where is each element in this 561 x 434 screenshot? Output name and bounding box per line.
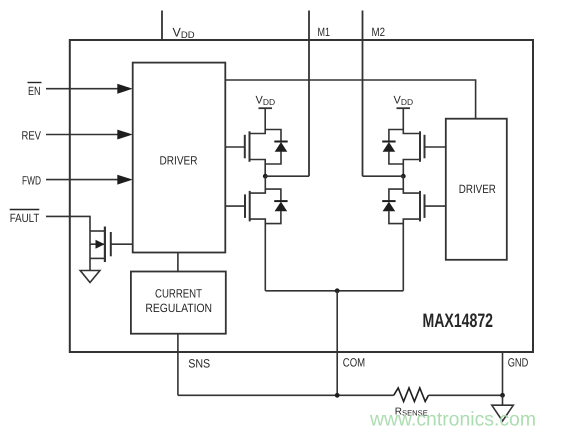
wire FAULT to open-drain transistor [46, 216, 90, 231]
node M1 bridge midpoint (junction dot) [263, 174, 268, 179]
svg-text:EN: EN [28, 84, 41, 98]
svg-text:COM: COM [343, 356, 365, 370]
wire bridge midpoint to M2 pin [363, 175, 404, 177]
wire DRIVER(left) to CURRENT REGULATION [177, 253, 179, 272]
transistor Q3 high-side right (NMOS, mirrored) [403, 108, 446, 176]
transistor Q1 high-side left (NMOS) [225, 108, 265, 176]
node GND external (junction dot) [500, 393, 505, 398]
node COM rail (junction dot) [335, 288, 340, 293]
wire SNS to RSENSE [178, 394, 394, 396]
pin VDD (top) [161, 11, 163, 41]
wire bridge midpoint to M1 pin [265, 175, 309, 177]
IC boundary MAX14872 [70, 40, 533, 352]
svg-text:VDD: VDD [394, 95, 414, 108]
svg-text:M1: M1 [318, 25, 331, 39]
svg-text:SNS: SNS [188, 357, 210, 371]
pin M2 (top) [362, 11, 364, 177]
diode body of Q1 [265, 130, 288, 165]
transistor Q5 fault open-drain (NMOS with body arrow) [90, 227, 133, 271]
block DRIVER (left) [133, 63, 226, 253]
wire EN input with arrowhead [46, 84, 133, 94]
ground (GND pin) [492, 395, 514, 421]
power VDD (left bridge) [256, 95, 276, 109]
svg-text:REV: REV [22, 129, 42, 143]
svg-text:M2: M2 [372, 25, 386, 39]
resistor RSENSE [394, 388, 429, 402]
pin M1 (top) [308, 11, 310, 177]
svg-text:VDD: VDD [256, 95, 276, 108]
wire RSENSE to GND [429, 394, 503, 396]
label EN input (active-low, overline) [28, 83, 42, 99]
diode body of Q2 [265, 189, 287, 224]
node COM external (junction dot) [335, 393, 340, 398]
svg-text:www.cntronics.com: www.cntronics.com [369, 408, 536, 430]
ground (fault transistor source) [80, 271, 100, 283]
label FAULT output (active-low, overline) [10, 210, 40, 226]
node M2 bridge midpoint (junction dot) [401, 174, 406, 179]
block CURRENT REGULATION [131, 272, 226, 334]
diode body of Q4 [382, 189, 403, 224]
svg-text:CURRENT: CURRENT [155, 287, 203, 301]
svg-text:FWD: FWD [22, 174, 41, 188]
svg-text:DRIVER: DRIVER [160, 153, 198, 167]
transistor Q2 low-side left (NMOS) [225, 176, 265, 291]
power VDD (right bridge) [394, 95, 414, 109]
wire FWD input with arrowhead [46, 175, 133, 185]
svg-text:REGULATION: REGULATION [145, 301, 212, 315]
pin GND [502, 352, 504, 395]
transistor Q4 low-side right (NMOS, mirrored) [403, 176, 446, 291]
svg-text:GND: GND [508, 356, 529, 370]
diode body of Q3 [382, 130, 403, 165]
wire low-side sources common rail [265, 290, 403, 292]
svg-text:FAULT: FAULT [10, 211, 40, 225]
svg-text:MAX14872: MAX14872 [423, 310, 494, 332]
block DRIVER (right) [446, 119, 507, 260]
svg-text:DRIVER: DRIVER [459, 182, 496, 196]
wire REV input with arrowhead [46, 130, 133, 140]
wire COM rail to COM pin [336, 291, 338, 396]
wire gate-drive bus DRIVER(left) to DRIVER(right) [225, 80, 475, 119]
wire SNS pin from CURRENT REGULATION [177, 334, 179, 396]
